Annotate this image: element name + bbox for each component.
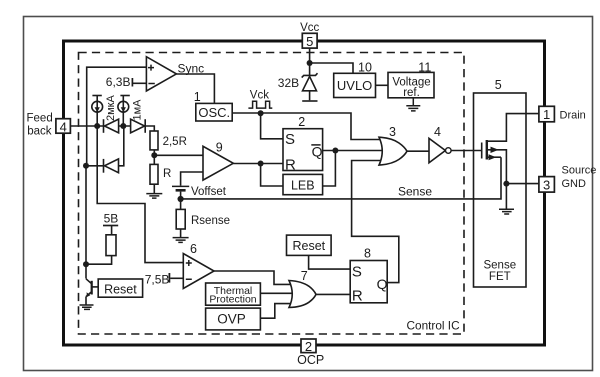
transistor sense FET	[482, 140, 499, 160]
pin 5 Vcc	[300, 22, 319, 49]
node Vcc	[307, 60, 313, 66]
resistor 5B pull-up	[103, 212, 118, 256]
wire Vcc node to UVLO	[310, 63, 353, 73]
wire thermal protection to OR7	[260, 292, 294, 294]
wire reset2 to latch8 S	[309, 255, 351, 269]
svg-text:back: back	[27, 125, 52, 137]
svg-text:6,3B: 6,3B	[106, 75, 131, 89]
svg-text:Reset: Reset	[104, 282, 137, 296]
svg-text:FET: FET	[489, 271, 511, 283]
svg-text:R: R	[285, 157, 296, 174]
node Vck	[258, 110, 264, 116]
wire current source 2 drop	[122, 96, 124, 127]
source 6,3B	[106, 75, 133, 89]
svg-text:1: 1	[543, 107, 550, 122]
svg-text:3: 3	[543, 177, 550, 192]
wire Vck node to S input	[261, 113, 283, 139]
svg-text:3: 3	[389, 125, 396, 139]
voltage ref U11	[388, 60, 434, 99]
svg-text:7,5B: 7,5B	[145, 273, 170, 287]
pin 3 Source GND	[539, 164, 596, 192]
battery Voffset	[172, 186, 189, 190]
block Thermal Protection	[206, 283, 261, 305]
ground below voltage ref	[406, 98, 420, 111]
wire 6,3B to minus input	[133, 82, 146, 84]
wire LEB out to Q node	[323, 151, 336, 187]
svg-text:7: 7	[301, 269, 308, 283]
op-amp comparator 9	[203, 140, 233, 180]
diode D3	[104, 159, 119, 173]
node diode3	[83, 163, 89, 169]
resistor Rsense	[176, 209, 230, 229]
wire comp9 out to R input	[233, 163, 283, 165]
diode D2	[131, 119, 146, 133]
oscillator OSC U1	[194, 90, 233, 121]
svg-text:Q: Q	[377, 276, 388, 292]
svg-text:5: 5	[306, 34, 313, 49]
svg-text:UVLO: UVLO	[337, 78, 372, 93]
latch U2	[283, 115, 323, 174]
wire Rsense to ground	[180, 229, 182, 237]
wire transistor emitter to ground	[85, 297, 87, 305]
wire FET source to pin3	[487, 150, 539, 184]
node reset drive	[83, 261, 89, 267]
wire sync plus input	[87, 67, 147, 166]
wire sense line	[181, 157, 501, 199]
wire feedback pin4 to resistor chain	[70, 126, 154, 131]
svg-text:2мкА: 2мкА	[105, 95, 117, 121]
wire Q out to OR3	[323, 150, 382, 152]
svg-text:4: 4	[60, 119, 67, 134]
svg-text:Vcc: Vcc	[300, 22, 319, 34]
block Reset R1	[98, 279, 142, 297]
node R input	[258, 161, 264, 167]
ground below R	[146, 194, 162, 199]
svg-text:Voffset: Voffset	[191, 186, 227, 198]
wire zener branch	[309, 63, 311, 100]
or-gate 7	[289, 269, 316, 308]
wire FET source to ground	[505, 184, 507, 210]
svg-text:4: 4	[434, 125, 441, 139]
current source 1mA	[118, 96, 130, 113]
svg-text:Q: Q	[312, 143, 323, 159]
wire dot1 to comp6 plus	[97, 126, 183, 263]
Control IC dashed box	[79, 53, 465, 335]
op-amp comparator 6	[183, 242, 214, 288]
node feedback 1	[94, 123, 100, 129]
wire pin5 to Vcc node	[309, 48, 311, 63]
wire FET drain to pin1	[487, 114, 539, 142]
node Q output	[332, 148, 338, 154]
node feedback 2	[120, 123, 126, 129]
svg-text:Rsense: Rsense	[191, 215, 230, 227]
pin 4 Feedback	[27, 112, 71, 137]
wires group	[70, 48, 539, 318]
transistor Q1	[86, 279, 92, 297]
block LEB	[283, 174, 323, 194]
wire R node to LEB in	[261, 164, 283, 187]
svg-text:Reset: Reset	[292, 239, 325, 253]
svg-text:Source: Source	[562, 164, 597, 176]
wire OR7 out to latch8 R	[316, 293, 350, 295]
svg-text:Protection: Protection	[209, 293, 256, 305]
wire Voffset to sense node	[180, 192, 182, 210]
svg-text:2: 2	[298, 115, 305, 129]
wire 5B resistor to node	[86, 226, 112, 265]
svg-text:2,5R: 2,5R	[163, 136, 187, 148]
wire 2,5R node to comp9	[154, 150, 203, 165]
or-gate 3	[379, 125, 407, 165]
svg-text:S: S	[352, 263, 362, 280]
wire diode3 branch	[86, 126, 124, 166]
latch U8	[350, 247, 387, 305]
diode D1	[104, 119, 119, 133]
wire transistor base	[92, 286, 99, 288]
svg-text:Sense: Sense	[483, 260, 516, 272]
wire R resistor to ground	[153, 184, 155, 193]
svg-text:Sense: Sense	[398, 184, 432, 198]
svg-text:2: 2	[305, 339, 312, 354]
svg-text:5B: 5B	[104, 212, 119, 226]
wire comp6 out to OR7	[214, 271, 291, 284]
svg-text:Drain: Drain	[560, 109, 586, 121]
svg-text:OCP: OCP	[297, 353, 324, 367]
UVLO U10	[334, 60, 376, 97]
svg-text:5: 5	[495, 78, 502, 92]
wire latch8 Q to OR3 input B	[352, 161, 399, 283]
resistor R	[150, 164, 171, 184]
Sense FET block	[474, 78, 527, 287]
wire current source 1 drop	[96, 96, 98, 127]
op-amp Sync comparator	[146, 57, 204, 91]
svg-text:1мА: 1мА	[131, 99, 143, 121]
block OVP	[206, 308, 261, 330]
svg-text:R: R	[163, 168, 171, 180]
wire OVP to OR7	[260, 304, 291, 319]
svg-text:10: 10	[358, 60, 372, 74]
svg-text:GND: GND	[562, 178, 587, 190]
wire inverter out to FET gate	[451, 150, 482, 152]
pin 1 Drain	[539, 106, 586, 122]
svg-text:S: S	[285, 131, 295, 148]
svg-text:11: 11	[418, 60, 431, 74]
wire OR3 out to inverter	[407, 150, 429, 152]
svg-text:8: 8	[364, 247, 371, 261]
pin 2 OCP	[297, 339, 324, 367]
zener diode 32B	[302, 73, 318, 101]
svg-text:1: 1	[194, 90, 201, 104]
wire 7,5B to comp6 minus	[170, 277, 183, 279]
svg-text:32B: 32B	[278, 76, 299, 90]
source 7,5B	[145, 273, 170, 287]
wire sync output to OSC	[176, 74, 214, 103]
wire OSC out to OR3 input A	[232, 113, 381, 140]
node FET source	[503, 181, 509, 187]
svg-text:Sync: Sync	[178, 62, 205, 76]
svg-text:Feed: Feed	[27, 112, 53, 124]
wire node to transistor	[85, 166, 87, 279]
ground below Rsense	[173, 238, 189, 243]
node sense	[178, 196, 184, 202]
node divider	[151, 152, 157, 158]
svg-text:OSC.: OSC.	[198, 105, 230, 120]
block Reset R2	[287, 235, 332, 255]
svg-text:Vck: Vck	[250, 90, 269, 102]
svg-text:ref.: ref.	[403, 87, 420, 99]
ground below sense FET	[499, 209, 514, 214]
svg-text:6: 6	[190, 242, 197, 256]
svg-text:Control IC: Control IC	[407, 318, 461, 332]
svg-text:OVP: OVP	[217, 312, 246, 327]
resistor 2,5R	[150, 131, 187, 150]
svg-text:LEB: LEB	[291, 179, 315, 193]
IC package box	[64, 41, 545, 345]
svg-text:R: R	[352, 287, 363, 304]
wire comp9 minus to Voffset	[181, 172, 203, 186]
wire FET sense tap	[487, 156, 501, 158]
ground below transistor	[80, 305, 94, 309]
wire UVLO to Voltage ref	[376, 84, 389, 86]
current source 2uA	[92, 96, 103, 113]
clock waveform Vck	[248, 101, 272, 108]
svg-text:9: 9	[216, 140, 223, 154]
inverter 4	[429, 125, 451, 163]
